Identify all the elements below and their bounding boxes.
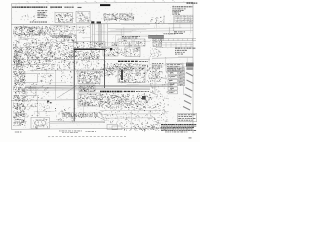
wire (119, 40, 142, 42)
legend box (166, 64, 183, 72)
component box row 1 (107, 125, 118, 130)
wire (26, 42, 50, 44)
wire (155, 19, 157, 29)
wire (105, 41, 119, 43)
wire (92, 33, 123, 35)
text rows above U201 (122, 36, 140, 38)
wire (98, 48, 110, 50)
wire (190, 23, 192, 33)
footnotes text block (161, 124, 196, 132)
wire (178, 56, 193, 58)
component cluster x100-118 y66-76 (108, 70, 111, 73)
ruler line (top frame) (11, 2, 193, 3)
cable hatch symbols (183, 73, 194, 111)
connector column J101 (19, 49, 22, 52)
title text BLOCK AND SCHEMATIC DIAGRAM (12, 7, 81, 8)
wire (horizontal y110.5) (100, 109, 160, 111)
wire (179, 19, 181, 29)
wire (75, 24, 77, 34)
wire (45, 82, 66, 84)
wire (101, 31, 132, 33)
wire (101, 101, 119, 103)
wire (121, 24, 150, 26)
component box row 2 (112, 126, 122, 130)
component cluster x150-167 y107-130 (157, 127, 159, 128)
wire (horizontal y121.4) (50, 120, 105, 122)
wire (vertical bus) (90, 24, 92, 46)
wire (21, 89, 42, 91)
wire (56, 34, 66, 36)
component box x153-161 (153, 37, 163, 47)
transformer box T101 (31, 117, 50, 128)
wire (116, 28, 147, 30)
transistor row Q209-Q214 (143, 64, 146, 67)
wire (52, 29, 81, 31)
wire (172, 26, 181, 28)
dark hatched block (heatsink) (186, 63, 194, 70)
wire (132, 40, 150, 42)
module block U304 (118, 67, 146, 83)
wire (vertical bus) (91, 24, 93, 46)
wire (horizontal y64.6) (11, 64, 50, 66)
transistor cluster Q101-Q104 (47, 29, 50, 32)
wire (vertical x16.5) (16, 40, 18, 70)
connector column J101 upper (17, 41, 19, 44)
component cluster x26-50 y100-117 (46, 114, 48, 116)
label P2002 (30, 21, 47, 24)
text rows x50-72 y35.5 (50, 36, 72, 38)
right border (192, 2, 194, 133)
voltage measurement notes text (172, 6, 192, 14)
component cluster x26-50 y83-100 (27, 86, 29, 88)
component cluster x100-150 y108-124 (110, 122, 113, 124)
component box Q105 (22, 27, 30, 34)
wire (131, 110, 133, 125)
wire (horizontal y118) (100, 117, 155, 119)
component cluster IC U103 (103, 13, 120, 22)
transistor row Q401-Q408 (99, 111, 101, 114)
dark header band (function switch) (100, 91, 149, 93)
wire (110, 29, 136, 31)
component box (driver 1) (118, 39, 132, 47)
terminal table (152, 42, 193, 47)
black label box MAIN (100, 4, 110, 6)
component cluster x55-75 y106-121 (74, 111, 76, 114)
wire (82, 37, 91, 39)
wire (183, 63, 185, 70)
IC block U202 (125, 47, 140, 57)
component cluster x50-73 y44-50 (57, 47, 60, 50)
ladder bus wires (152, 38, 196, 40)
bold wire (vertical rail x104.6) (104, 49, 106, 88)
wire (168, 23, 193, 25)
wire (50, 24, 62, 26)
bus wire y24 (11, 23, 193, 25)
bottom border (11, 128, 193, 130)
voltage table (175, 15, 193, 22)
wire (167, 63, 193, 65)
label next to relay (164, 32, 165, 35)
to-main arrow note (174, 32, 185, 34)
wire (vertical bus) (98, 24, 100, 46)
module block U302 (79, 85, 95, 93)
wire (phono bus 3) (28, 87, 150, 90)
connector strip J301 (168, 68, 178, 94)
component box (filter) (26, 88, 36, 96)
paper texture (scan noise) (12, 4, 194, 129)
wire (vertical x37.5) (37, 96, 39, 117)
component box (tone) (23, 74, 38, 83)
IC block U101 (55, 12, 74, 23)
wire (horizontal y59.5) (30, 58, 150, 61)
component cluster y60-70 (53, 65, 56, 68)
wire (120, 29, 122, 42)
component cluster (sparse top left) (32, 15, 35, 18)
wire (horizontal y70) (30, 69, 105, 71)
junction blobs (91, 21, 101, 23)
wire (vertical x155) (154, 71, 156, 95)
wire (horizontal y122.9) (50, 122, 105, 124)
wire (168, 66, 193, 68)
transistor symbols row (63, 113, 98, 117)
wire (152, 64, 178, 66)
component column x61-67 (65, 37, 68, 39)
caption text under border (15, 131, 96, 133)
wire (34, 111, 55, 113)
IC block U105 (68, 35, 76, 43)
component cluster x50-75 y25-34 (69, 32, 72, 35)
wire (vertical bus) (93, 24, 95, 46)
component box Q106 (32, 28, 40, 35)
wire (16, 106, 36, 108)
ruler tick marks (19, 0, 184, 3)
component cluster x150-164 y15-24 (150, 20, 153, 22)
bold bus wire (B+ rail) (74, 48, 106, 50)
wire (138, 36, 150, 38)
wire (148, 57, 150, 66)
component cluster x150-168 y95-107 (155, 97, 158, 100)
component cluster x150-162 (156, 52, 159, 55)
wire (horizontal y100) (11, 99, 78, 102)
component cluster dark pair (47, 101, 52, 104)
wire (rail y31.2) (108, 30, 193, 33)
wire (123, 27, 125, 42)
component cluster sparse x61-100 y71-85 (70, 78, 72, 79)
note box (speaker impedance) (178, 114, 197, 122)
wire (horizontal y114) (100, 113, 160, 115)
wire (rail y28.4) (108, 27, 193, 30)
component box (driver 2) (134, 39, 145, 46)
wire (diagonal) (57, 86, 76, 98)
component cluster x50-61 (59, 29, 61, 31)
wire (vertical bus) (103, 23, 105, 46)
wire (51, 63, 53, 70)
component cluster x146-160 y67-82 (155, 75, 157, 77)
left border (10, 4, 12, 130)
bold wire (vertical rail x74) (73, 49, 75, 121)
dark blob D301 (142, 96, 146, 100)
component cluster between U201 U202 (123, 51, 125, 54)
speaker notes text rows (175, 48, 195, 55)
component cluster (above bold bus) (74, 42, 106, 50)
component cluster x38-52 y72-82 (46, 73, 48, 75)
module block U301 (dense) (78, 71, 100, 85)
parts list text block (37, 10, 47, 18)
wire (168, 28, 170, 35)
component cluster below y65 (21, 66, 23, 68)
wire (116, 34, 150, 36)
component cluster x123-160 y124-131 (144, 127, 147, 130)
wire (127, 84, 139, 86)
wire (42, 73, 54, 75)
page label 8-3 (189, 137, 192, 138)
wire (135, 64, 147, 66)
IC block U201 (103, 47, 118, 56)
wire (169, 27, 171, 35)
wire (165, 57, 167, 65)
wire (vertical x55) (55, 71, 57, 100)
component cluster x150-167 y71-95 (162, 84, 165, 86)
wire (83, 102, 85, 117)
wire (phono bus 1) (25, 85, 173, 86)
component cluster x111-117 y42-46 (113, 43, 116, 46)
relay block RY201 (gray) (149, 35, 164, 38)
component cluster (light x77-90) (88, 26, 91, 29)
text rows left of legend (152, 63, 163, 69)
wire (176, 20, 193, 22)
component cluster (mid-left upper) (35, 39, 38, 42)
transistor cluster Q107-Q112 (13, 61, 16, 64)
wire (55, 25, 68, 27)
wire (96, 31, 106, 33)
switch matrix cluster (dense) (101, 98, 104, 100)
IC block U102 (76, 11, 92, 22)
module block U303 (dense) (78, 93, 100, 107)
wire (vertical bus) (100, 24, 102, 46)
wire (left cluster interconnects) (14, 27, 51, 65)
component cluster (mid-left) (34, 49, 37, 51)
wire (vertical from table) (173, 15, 175, 31)
transistor row Q201-Q208 (75, 51, 78, 54)
wire (151, 63, 153, 70)
component cluster IC U104 (119, 13, 135, 22)
label POWER AMP (dark row) (118, 61, 148, 62)
page label 8-1 top right (187, 3, 198, 4)
connector strip J302 (179, 68, 185, 86)
wire (phono bus 4) (28, 89, 150, 92)
wire (horizontal y78) (150, 77, 167, 79)
fold dashed line (48, 135, 126, 137)
wire (55, 26, 83, 28)
wire (vertical bus) (107, 23, 109, 46)
input jack column J101-J107 (13, 71, 27, 127)
wire (186, 58, 188, 68)
wire (115, 35, 117, 46)
wire (vertical x183.5) (183, 67, 185, 95)
wire (vertical x164) (163, 16, 165, 25)
wire (phono bus 2) (25, 86, 173, 87)
wire (24, 46, 35, 48)
component cluster x130-150 y93-108 (133, 99, 136, 102)
wire (horizontal right y58) (152, 57, 193, 60)
junction on bus (74, 49, 106, 51)
